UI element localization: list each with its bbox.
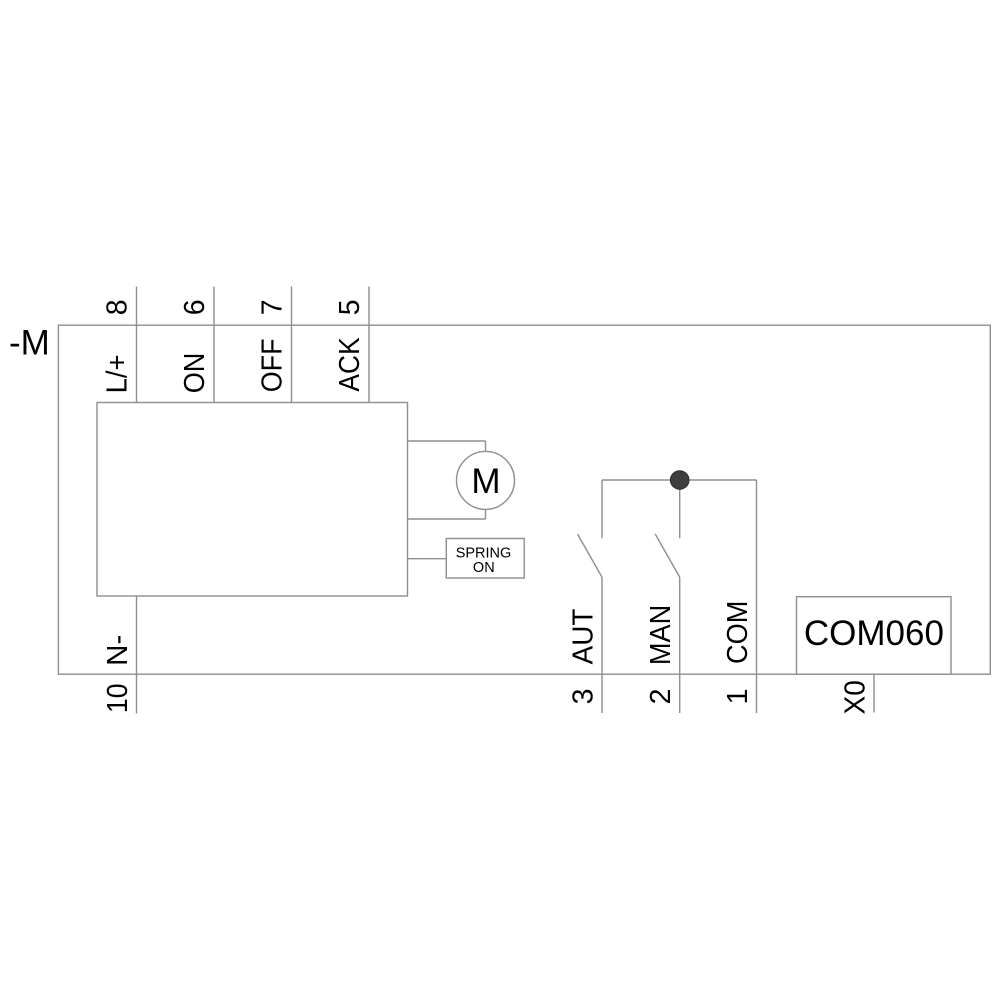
svg-text:6: 6 [179, 299, 211, 315]
svg-text:-M: -M [9, 323, 50, 362]
svg-text:ON: ON [473, 560, 495, 576]
svg-text:2: 2 [645, 689, 677, 705]
svg-text:X0: X0 [840, 680, 872, 714]
svg-text:N-: N- [102, 635, 134, 666]
svg-text:COM060: COM060 [804, 614, 944, 653]
svg-text:5: 5 [334, 299, 366, 315]
svg-text:7: 7 [257, 299, 289, 315]
svg-text:MAN: MAN [645, 605, 677, 665]
svg-text:10: 10 [102, 683, 134, 713]
svg-text:L/+: L/+ [102, 354, 134, 393]
svg-text:1: 1 [722, 689, 754, 705]
svg-text:COM: COM [722, 601, 754, 664]
svg-text:8: 8 [102, 299, 134, 315]
svg-text:ACK: ACK [334, 337, 366, 391]
svg-text:3: 3 [568, 688, 600, 704]
svg-text:OFF: OFF [257, 339, 289, 393]
svg-text:M: M [471, 462, 500, 501]
svg-text:AUT: AUT [568, 609, 600, 665]
svg-text:ON: ON [179, 353, 211, 394]
